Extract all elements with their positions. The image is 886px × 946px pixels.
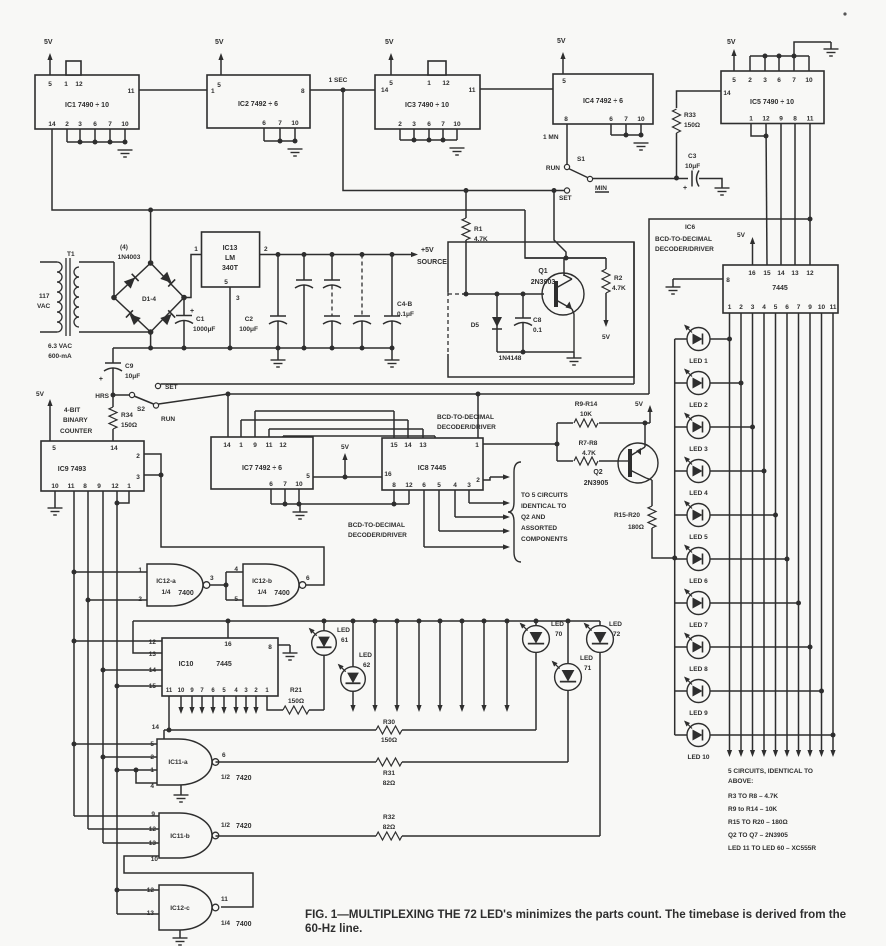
svg-text:6: 6	[93, 121, 97, 128]
svg-text:12: 12	[111, 483, 119, 490]
svg-text:6: 6	[269, 481, 273, 488]
svg-text:0.1: 0.1	[533, 327, 542, 334]
svg-text:12: 12	[149, 639, 157, 646]
svg-text:12: 12	[279, 442, 287, 449]
svg-text:11: 11	[68, 483, 75, 490]
svg-text:16: 16	[384, 471, 392, 478]
svg-text:2N3903: 2N3903	[531, 279, 556, 286]
svg-text:14: 14	[777, 270, 785, 277]
svg-text:10K: 10K	[580, 411, 592, 418]
svg-text:R33: R33	[684, 112, 696, 119]
svg-text:IC12-c: IC12-c	[170, 905, 190, 912]
svg-text:BINARY: BINARY	[63, 417, 88, 424]
svg-text:LED: LED	[551, 621, 564, 628]
svg-text:5: 5	[52, 445, 56, 452]
svg-text:1N4148: 1N4148	[499, 355, 522, 362]
svg-text:IC5 7490 ÷ 10: IC5 7490 ÷ 10	[750, 99, 794, 106]
svg-text:8: 8	[564, 116, 568, 123]
svg-text:62: 62	[363, 662, 371, 669]
svg-text:1: 1	[64, 81, 68, 88]
svg-text:5: 5	[732, 77, 736, 84]
svg-text:Q2 AND: Q2 AND	[521, 514, 546, 521]
svg-text:5V: 5V	[385, 39, 394, 46]
svg-text:7: 7	[797, 304, 801, 311]
svg-text:10: 10	[121, 121, 129, 128]
svg-text:R34: R34	[121, 412, 133, 419]
svg-text:LED 10: LED 10	[687, 754, 709, 761]
svg-text:5: 5	[389, 80, 393, 87]
svg-text:1: 1	[475, 442, 479, 449]
svg-text:10: 10	[453, 121, 461, 128]
svg-text:6.3 VAC: 6.3 VAC	[48, 343, 72, 350]
svg-text:10: 10	[295, 481, 303, 488]
svg-text:+5V: +5V	[421, 247, 434, 254]
svg-text:1000μF: 1000μF	[193, 326, 215, 333]
svg-text:DECODER/DRIVER: DECODER/DRIVER	[348, 532, 407, 539]
svg-text:10: 10	[637, 116, 645, 123]
svg-text:HRS: HRS	[95, 393, 109, 400]
svg-text:7400: 7400	[274, 590, 290, 597]
svg-text:9: 9	[253, 442, 257, 449]
svg-text:LED 7: LED 7	[689, 622, 708, 629]
svg-text:1: 1	[138, 567, 142, 574]
svg-text:8: 8	[301, 88, 305, 95]
svg-text:11: 11	[469, 87, 476, 94]
svg-text:5V: 5V	[602, 334, 611, 341]
svg-text:FIG. 1—MULTIPLEXING THE 72 LED: FIG. 1—MULTIPLEXING THE 72 LED's minimiz…	[305, 908, 847, 921]
svg-text:4.7K: 4.7K	[582, 450, 596, 457]
svg-text:D5: D5	[471, 322, 480, 329]
svg-text:7: 7	[441, 121, 445, 128]
svg-text:LED 5: LED 5	[689, 534, 708, 541]
svg-text:+: +	[99, 376, 103, 383]
svg-text:BCD-TO-DECIMAL: BCD-TO-DECIMAL	[437, 414, 494, 421]
svg-text:IDENTICAL TO: IDENTICAL TO	[521, 503, 566, 510]
svg-text:6: 6	[427, 121, 431, 128]
svg-text:1: 1	[211, 88, 215, 95]
svg-text:ASSORTED: ASSORTED	[521, 525, 557, 532]
svg-text:LED 8: LED 8	[689, 666, 708, 673]
svg-text:+: +	[190, 308, 194, 315]
svg-text:11: 11	[221, 896, 228, 903]
svg-text:14: 14	[110, 445, 118, 452]
svg-text:10: 10	[178, 688, 185, 694]
svg-text:1: 1	[194, 246, 198, 253]
svg-text:1: 1	[728, 304, 732, 311]
svg-text:11: 11	[166, 688, 173, 694]
svg-text:IC8 7445: IC8 7445	[418, 465, 447, 472]
svg-text:10μF: 10μF	[685, 163, 700, 170]
svg-text:5: 5	[48, 81, 52, 88]
svg-text:70: 70	[555, 631, 563, 638]
svg-text:5: 5	[562, 78, 566, 85]
svg-text:7420: 7420	[236, 823, 252, 830]
svg-text:5 CIRCUITS, IDENTICAL TO: 5 CIRCUITS, IDENTICAL TO	[728, 768, 813, 775]
svg-text:DECODER/DRIVER: DECODER/DRIVER	[437, 424, 496, 431]
svg-text:6: 6	[785, 304, 789, 311]
svg-text:IC2 7492 ÷ 6: IC2 7492 ÷ 6	[238, 101, 278, 108]
svg-text:1 SEC: 1 SEC	[329, 77, 348, 84]
svg-text:3: 3	[136, 474, 140, 481]
svg-text:3: 3	[751, 304, 755, 311]
svg-text:2: 2	[748, 77, 752, 84]
svg-text:61: 61	[341, 637, 349, 644]
svg-text:5: 5	[306, 473, 310, 480]
svg-text:82Ω: 82Ω	[383, 824, 395, 831]
svg-text:12: 12	[405, 482, 413, 489]
svg-text:11: 11	[830, 304, 837, 311]
svg-text:1/4: 1/4	[257, 589, 266, 596]
svg-text:LED 11 TO LED 60 – XC555R: LED 11 TO LED 60 – XC555R	[728, 845, 816, 852]
svg-text:1N4003: 1N4003	[118, 254, 141, 261]
svg-text:IC1 7490 ÷ 10: IC1 7490 ÷ 10	[65, 102, 109, 109]
svg-text:1: 1	[239, 442, 243, 449]
svg-text:5V: 5V	[215, 39, 224, 46]
svg-text:2: 2	[739, 304, 743, 311]
svg-text:SET: SET	[559, 195, 572, 202]
svg-text:IC12-a: IC12-a	[156, 578, 176, 585]
svg-text:10: 10	[805, 77, 813, 84]
svg-text:IC13: IC13	[223, 245, 238, 252]
svg-text:1/2: 1/2	[221, 822, 230, 829]
svg-text:5: 5	[224, 279, 228, 286]
svg-text:COMPONENTS: COMPONENTS	[521, 536, 568, 543]
svg-text:1: 1	[127, 483, 131, 490]
svg-text:BCD-TO-DECIMAL: BCD-TO-DECIMAL	[348, 522, 405, 529]
svg-text:7420: 7420	[236, 775, 252, 782]
svg-text:117: 117	[39, 293, 50, 300]
svg-text:14: 14	[723, 90, 731, 97]
svg-text:2N3905: 2N3905	[584, 480, 609, 487]
svg-text:10: 10	[818, 304, 826, 311]
svg-text:S2: S2	[137, 406, 145, 413]
svg-text:9: 9	[808, 304, 812, 311]
svg-text:C2: C2	[245, 316, 254, 323]
svg-text:9: 9	[151, 811, 155, 818]
svg-text:IC10: IC10	[179, 661, 194, 668]
svg-text:10: 10	[151, 856, 159, 863]
svg-text:82Ω: 82Ω	[383, 780, 395, 787]
svg-text:5V: 5V	[36, 391, 45, 398]
svg-text:LED 4: LED 4	[689, 490, 708, 497]
svg-text:T1: T1	[67, 251, 75, 258]
svg-text:15: 15	[390, 442, 398, 449]
svg-text:14: 14	[404, 442, 412, 449]
svg-text:COUNTER: COUNTER	[60, 428, 92, 435]
svg-text:1: 1	[427, 80, 431, 87]
svg-text:5: 5	[437, 482, 441, 489]
svg-text:5: 5	[217, 82, 221, 89]
svg-text:6: 6	[306, 575, 310, 582]
svg-text:100μF: 100μF	[239, 326, 258, 333]
svg-text:R21: R21	[290, 687, 302, 694]
svg-text:C4-B: C4-B	[397, 301, 412, 308]
svg-text:IC3 7490 ÷ 10: IC3 7490 ÷ 10	[405, 102, 449, 109]
svg-text:LED 2: LED 2	[689, 402, 708, 409]
svg-text:1 MN: 1 MN	[543, 134, 559, 141]
svg-text:R30: R30	[383, 719, 395, 726]
svg-text:IC6: IC6	[685, 224, 696, 231]
svg-text:IC4 7492 ÷ 6: IC4 7492 ÷ 6	[583, 98, 623, 105]
svg-text:6: 6	[609, 116, 613, 123]
svg-text:150Ω: 150Ω	[684, 122, 700, 129]
svg-text:6: 6	[777, 77, 781, 84]
svg-text:60-Hz line.: 60-Hz line.	[305, 922, 362, 935]
svg-text:5: 5	[774, 304, 778, 311]
svg-text:16: 16	[748, 270, 756, 277]
svg-text:2: 2	[136, 453, 140, 460]
svg-text:5V: 5V	[727, 39, 736, 46]
svg-text:LM: LM	[225, 255, 235, 262]
svg-text:8: 8	[268, 644, 272, 651]
svg-text:9: 9	[97, 483, 101, 490]
svg-text:3: 3	[236, 295, 240, 302]
svg-text:R9 to R14 – 10K: R9 to R14 – 10K	[728, 806, 777, 813]
svg-text:6: 6	[222, 752, 226, 759]
svg-text:BCD-TO-DECIMAL: BCD-TO-DECIMAL	[655, 236, 712, 243]
svg-text:1/4: 1/4	[161, 589, 170, 596]
svg-text:13: 13	[149, 651, 157, 658]
svg-text:9: 9	[779, 116, 783, 123]
svg-text:1/4: 1/4	[221, 920, 230, 927]
svg-text:SOURCE: SOURCE	[417, 259, 447, 266]
svg-text:IC11-a: IC11-a	[168, 759, 188, 766]
svg-text:0.1μF: 0.1μF	[397, 311, 414, 318]
svg-text:TO 5 CIRCUITS: TO 5 CIRCUITS	[521, 492, 568, 499]
svg-text:12: 12	[75, 81, 83, 88]
svg-text:10: 10	[291, 120, 299, 127]
svg-text:Q1: Q1	[538, 268, 547, 275]
svg-text:IC11-b: IC11-b	[170, 833, 190, 840]
svg-text:5V: 5V	[635, 401, 644, 408]
svg-text:2: 2	[264, 246, 268, 253]
svg-text:15: 15	[763, 270, 771, 277]
svg-text:5V: 5V	[44, 39, 53, 46]
svg-text:10μF: 10μF	[125, 373, 140, 380]
svg-text:7445: 7445	[772, 285, 788, 292]
svg-text:IC7 7492 ÷ 6: IC7 7492 ÷ 6	[242, 465, 282, 472]
svg-text:4.7K: 4.7K	[612, 285, 626, 292]
svg-text:R1: R1	[474, 226, 483, 233]
svg-text:4-BIT: 4-BIT	[64, 407, 80, 414]
svg-text:7: 7	[108, 121, 112, 128]
svg-text:LED 3: LED 3	[689, 446, 708, 453]
svg-text:5V: 5V	[557, 38, 566, 45]
svg-text:C3: C3	[688, 153, 697, 160]
svg-text:6: 6	[262, 120, 266, 127]
svg-text:150Ω: 150Ω	[381, 737, 397, 744]
svg-text:7445: 7445	[216, 661, 232, 668]
svg-text:7400: 7400	[178, 590, 194, 597]
svg-text:DECODER/DRIVER: DECODER/DRIVER	[655, 246, 714, 253]
svg-text:11: 11	[266, 442, 273, 449]
svg-text:13: 13	[791, 270, 799, 277]
svg-text:2: 2	[398, 121, 402, 128]
svg-text:5V: 5V	[341, 444, 350, 451]
svg-text:14: 14	[381, 87, 389, 94]
svg-text:7: 7	[283, 481, 287, 488]
svg-text:C1: C1	[196, 316, 205, 323]
svg-text:LED 6: LED 6	[689, 578, 708, 585]
svg-text:12: 12	[762, 116, 770, 123]
svg-text:LED: LED	[337, 627, 350, 634]
svg-text:SET: SET	[165, 384, 178, 391]
svg-text:6: 6	[422, 482, 426, 489]
svg-text:R15 TO R20 – 180Ω: R15 TO R20 – 180Ω	[728, 819, 788, 826]
svg-text:IC12-b: IC12-b	[252, 578, 272, 585]
svg-text:71: 71	[584, 665, 592, 672]
svg-text:R32: R32	[383, 814, 395, 821]
svg-text:3: 3	[763, 77, 767, 84]
svg-text:3: 3	[412, 121, 416, 128]
svg-text:2: 2	[476, 477, 480, 484]
svg-text:7: 7	[624, 116, 628, 123]
svg-text:14: 14	[223, 442, 231, 449]
svg-text:4: 4	[762, 304, 766, 311]
svg-text:C8: C8	[533, 317, 542, 324]
svg-text:ABOVE:: ABOVE:	[728, 778, 753, 785]
svg-text:S1: S1	[577, 156, 585, 163]
svg-text:VAC: VAC	[37, 303, 51, 310]
svg-text:1/2: 1/2	[221, 774, 230, 781]
svg-text:11: 11	[128, 88, 135, 95]
svg-text:4.7K: 4.7K	[474, 236, 488, 243]
svg-text:D1-4: D1-4	[142, 296, 156, 303]
svg-text:8: 8	[726, 277, 730, 284]
svg-text:R9-R14: R9-R14	[575, 401, 598, 408]
svg-text:7400: 7400	[236, 921, 252, 928]
svg-text:RUN: RUN	[546, 165, 560, 172]
svg-text:C9: C9	[125, 363, 134, 370]
svg-text:1: 1	[749, 116, 753, 123]
svg-text:RUN: RUN	[161, 416, 175, 423]
svg-text:5V: 5V	[737, 232, 746, 239]
svg-text:LED 9: LED 9	[689, 710, 708, 717]
svg-text:7: 7	[278, 120, 282, 127]
svg-text:R2: R2	[614, 275, 623, 282]
svg-text:13: 13	[419, 442, 427, 449]
svg-text:4: 4	[453, 482, 457, 489]
svg-text:600-mA: 600-mA	[48, 353, 72, 360]
svg-text:7: 7	[792, 77, 796, 84]
svg-text:Q2 TO Q7 – 2N3905: Q2 TO Q7 – 2N3905	[728, 832, 788, 839]
svg-text:3: 3	[467, 482, 471, 489]
svg-text:72: 72	[613, 631, 621, 638]
svg-text:3: 3	[78, 121, 82, 128]
svg-text:14: 14	[152, 724, 160, 731]
svg-text:16: 16	[224, 641, 232, 648]
svg-text:10: 10	[51, 483, 59, 490]
svg-text:340T: 340T	[222, 265, 239, 272]
svg-text:R15-R20: R15-R20	[614, 512, 640, 519]
svg-text:4: 4	[150, 783, 154, 790]
svg-text:2: 2	[65, 121, 69, 128]
svg-text:R7-R8: R7-R8	[579, 440, 598, 447]
svg-text:14: 14	[48, 121, 56, 128]
svg-text:LED: LED	[609, 621, 622, 628]
svg-text:IC9 7493: IC9 7493	[58, 466, 87, 473]
svg-text:8: 8	[793, 116, 797, 123]
svg-text:(4): (4)	[120, 244, 128, 251]
svg-text:3: 3	[210, 575, 214, 582]
svg-text:12: 12	[806, 270, 814, 277]
svg-text:+: +	[683, 185, 687, 192]
svg-text:R3 TO R8 – 4.7K: R3 TO R8 – 4.7K	[728, 793, 778, 800]
svg-text:MIN: MIN	[595, 185, 607, 192]
svg-text:180Ω: 180Ω	[628, 524, 644, 531]
svg-text:Q2: Q2	[593, 469, 602, 476]
svg-text:LED: LED	[359, 652, 372, 659]
svg-text:LED 1: LED 1	[689, 358, 708, 365]
svg-text:R31: R31	[383, 770, 395, 777]
svg-text:11: 11	[807, 116, 814, 123]
svg-text:150Ω: 150Ω	[121, 422, 137, 429]
svg-text:LED: LED	[580, 655, 593, 662]
svg-text:12: 12	[442, 80, 450, 87]
svg-text:150Ω: 150Ω	[288, 698, 304, 705]
svg-text:8: 8	[392, 482, 396, 489]
svg-text:8: 8	[83, 483, 87, 490]
